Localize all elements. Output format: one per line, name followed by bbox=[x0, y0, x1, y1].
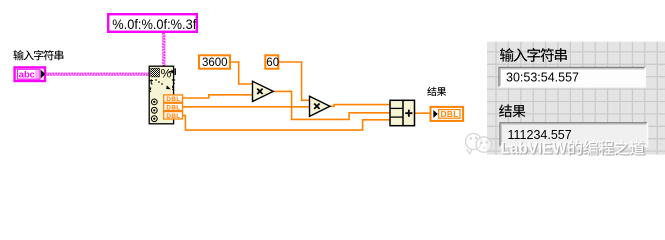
wire compound add to indicator bbox=[415, 112, 431, 114]
DBL output terminal 1 bbox=[164, 95, 183, 103]
svg-text:DBL: DBL bbox=[166, 113, 180, 120]
svg-text:30:53:54.557: 30:53:54.557 bbox=[506, 71, 579, 85]
format string constant bbox=[108, 14, 197, 32]
multiply node M2 bbox=[310, 96, 330, 116]
svg-text:%.0f:%.0f:%.3f: %.0f:%.0f:%.3f bbox=[112, 17, 196, 32]
Scan From String node U1 bbox=[149, 66, 176, 124]
watermark logo bbox=[466, 134, 492, 154]
wire M2 out to compound add bbox=[330, 105, 390, 107]
wire 60 to multiply M2 bbox=[278, 62, 309, 100]
label 输入字符串 (diagram) bbox=[13, 50, 63, 60]
numeric constant 3600 bbox=[199, 55, 230, 69]
svg-text:%: % bbox=[161, 66, 172, 80]
wire M1 out to compound add bbox=[273, 91, 390, 119]
DBL indicator bbox=[431, 107, 464, 121]
svg-text:DBL: DBL bbox=[166, 105, 180, 112]
wire DBL2 to multiply M2 bbox=[183, 106, 310, 108]
panel label 输入字符串 bbox=[500, 48, 567, 62]
label 结果 (diagram) bbox=[427, 87, 446, 96]
svg-text:DBL: DBL bbox=[166, 96, 180, 103]
wire 3600 to multiply M1 bbox=[230, 62, 253, 84]
string control terminal bbox=[15, 67, 46, 81]
numeric indicator field bbox=[500, 123, 648, 147]
watermark text bbox=[501, 140, 646, 159]
svg-text:3600: 3600 bbox=[202, 57, 228, 69]
svg-text:DBL: DBL bbox=[441, 110, 459, 119]
wire DBL3 to compound add bbox=[183, 115, 391, 130]
numeric constant 60 bbox=[265, 55, 279, 69]
svg-text:LabVIEW: LabVIEW bbox=[501, 140, 568, 158]
compound arithmetic add node bbox=[390, 100, 415, 125]
wire DBL1 to multiply M1 bbox=[183, 95, 253, 98]
multiply node M1 bbox=[253, 81, 274, 101]
DBL output terminal 2 bbox=[164, 103, 183, 111]
string control field bbox=[499, 68, 645, 87]
svg-text:abc: abc bbox=[19, 70, 35, 80]
front panel background bbox=[487, 42, 665, 155]
svg-text:60: 60 bbox=[266, 57, 279, 69]
string wire (terminal to node) bbox=[46, 73, 150, 75]
panel label 结果 bbox=[499, 104, 526, 117]
DBL output terminal 3 bbox=[164, 112, 183, 120]
string wire (format constant to node) bbox=[163, 33, 165, 66]
